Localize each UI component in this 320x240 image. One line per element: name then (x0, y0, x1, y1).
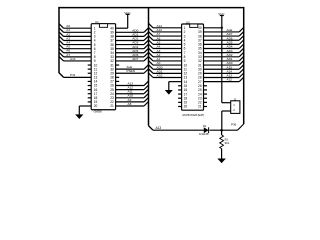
svg-text:40: 40 (110, 26, 114, 30)
svg-text:U2: U2 (186, 20, 190, 24)
svg-text:23: 23 (110, 96, 114, 100)
svg-text:34: 34 (198, 51, 202, 55)
svg-text:25: 25 (110, 88, 114, 92)
svg-text:30: 30 (110, 67, 114, 71)
svg-text:20: 20 (184, 105, 188, 109)
svg-text:9K1: 9K1 (225, 141, 230, 145)
svg-text:33: 33 (110, 55, 114, 59)
svg-text:37: 37 (198, 38, 202, 42)
svg-text:21: 21 (198, 105, 202, 109)
svg-text:A8: A8 (128, 102, 132, 106)
svg-text:20: 20 (94, 104, 98, 108)
svg-text:34: 34 (110, 51, 114, 55)
svg-text:40: 40 (198, 26, 202, 30)
svg-text:GMS90: GMS90 (94, 111, 103, 114)
svg-text:35: 35 (198, 47, 202, 51)
svg-text:27: 27 (110, 80, 114, 84)
svg-text:AD2: AD2 (157, 74, 163, 78)
svg-text:A13: A13 (156, 126, 162, 130)
svg-text:AD7: AD7 (132, 57, 138, 61)
svg-text:23: 23 (198, 96, 202, 100)
svg-text:GM76C8128 (E2P): GM76C8128 (E2P) (182, 113, 204, 117)
svg-text:36: 36 (110, 43, 114, 47)
svg-text:38: 38 (110, 35, 114, 39)
svg-text:D1: D1 (203, 124, 207, 128)
svg-text:22: 22 (110, 100, 114, 104)
svg-text:25: 25 (198, 88, 202, 92)
svg-text:37: 37 (110, 39, 114, 43)
svg-text:29: 29 (110, 71, 114, 75)
svg-text:A12: A12 (227, 78, 233, 82)
svg-text:39: 39 (110, 30, 114, 34)
svg-text:J2: J2 (233, 97, 236, 101)
svg-text:A14: A14 (70, 57, 76, 61)
svg-text:1N4148: 1N4148 (199, 132, 209, 136)
svg-text:26: 26 (110, 84, 114, 88)
svg-text:VCC: VCC (124, 11, 131, 15)
svg-text:26: 26 (198, 84, 202, 88)
svg-text:28: 28 (198, 76, 202, 80)
svg-text:27: 27 (198, 80, 202, 84)
svg-text:31: 31 (198, 63, 202, 67)
svg-text:32: 32 (110, 59, 114, 63)
svg-text:39: 39 (198, 30, 202, 34)
svg-text:36: 36 (198, 43, 202, 47)
svg-text:24: 24 (110, 92, 114, 96)
svg-text:21: 21 (110, 104, 114, 108)
svg-text:28: 28 (110, 76, 114, 80)
svg-text:29: 29 (198, 72, 202, 76)
svg-text:U1: U1 (95, 20, 99, 24)
svg-text:22: 22 (198, 101, 202, 105)
svg-text:38: 38 (198, 34, 202, 38)
svg-text:VCC: VCC (218, 12, 225, 16)
svg-text:PSEN: PSEN (127, 69, 135, 73)
svg-text:P31: P31 (70, 73, 76, 77)
svg-text:30: 30 (198, 67, 202, 71)
svg-text:32: 32 (198, 59, 202, 63)
svg-text:35: 35 (110, 47, 114, 51)
svg-text:31: 31 (110, 63, 114, 67)
svg-text:24: 24 (198, 92, 202, 96)
svg-text:33: 33 (198, 55, 202, 59)
svg-text:P36: P36 (231, 123, 237, 127)
